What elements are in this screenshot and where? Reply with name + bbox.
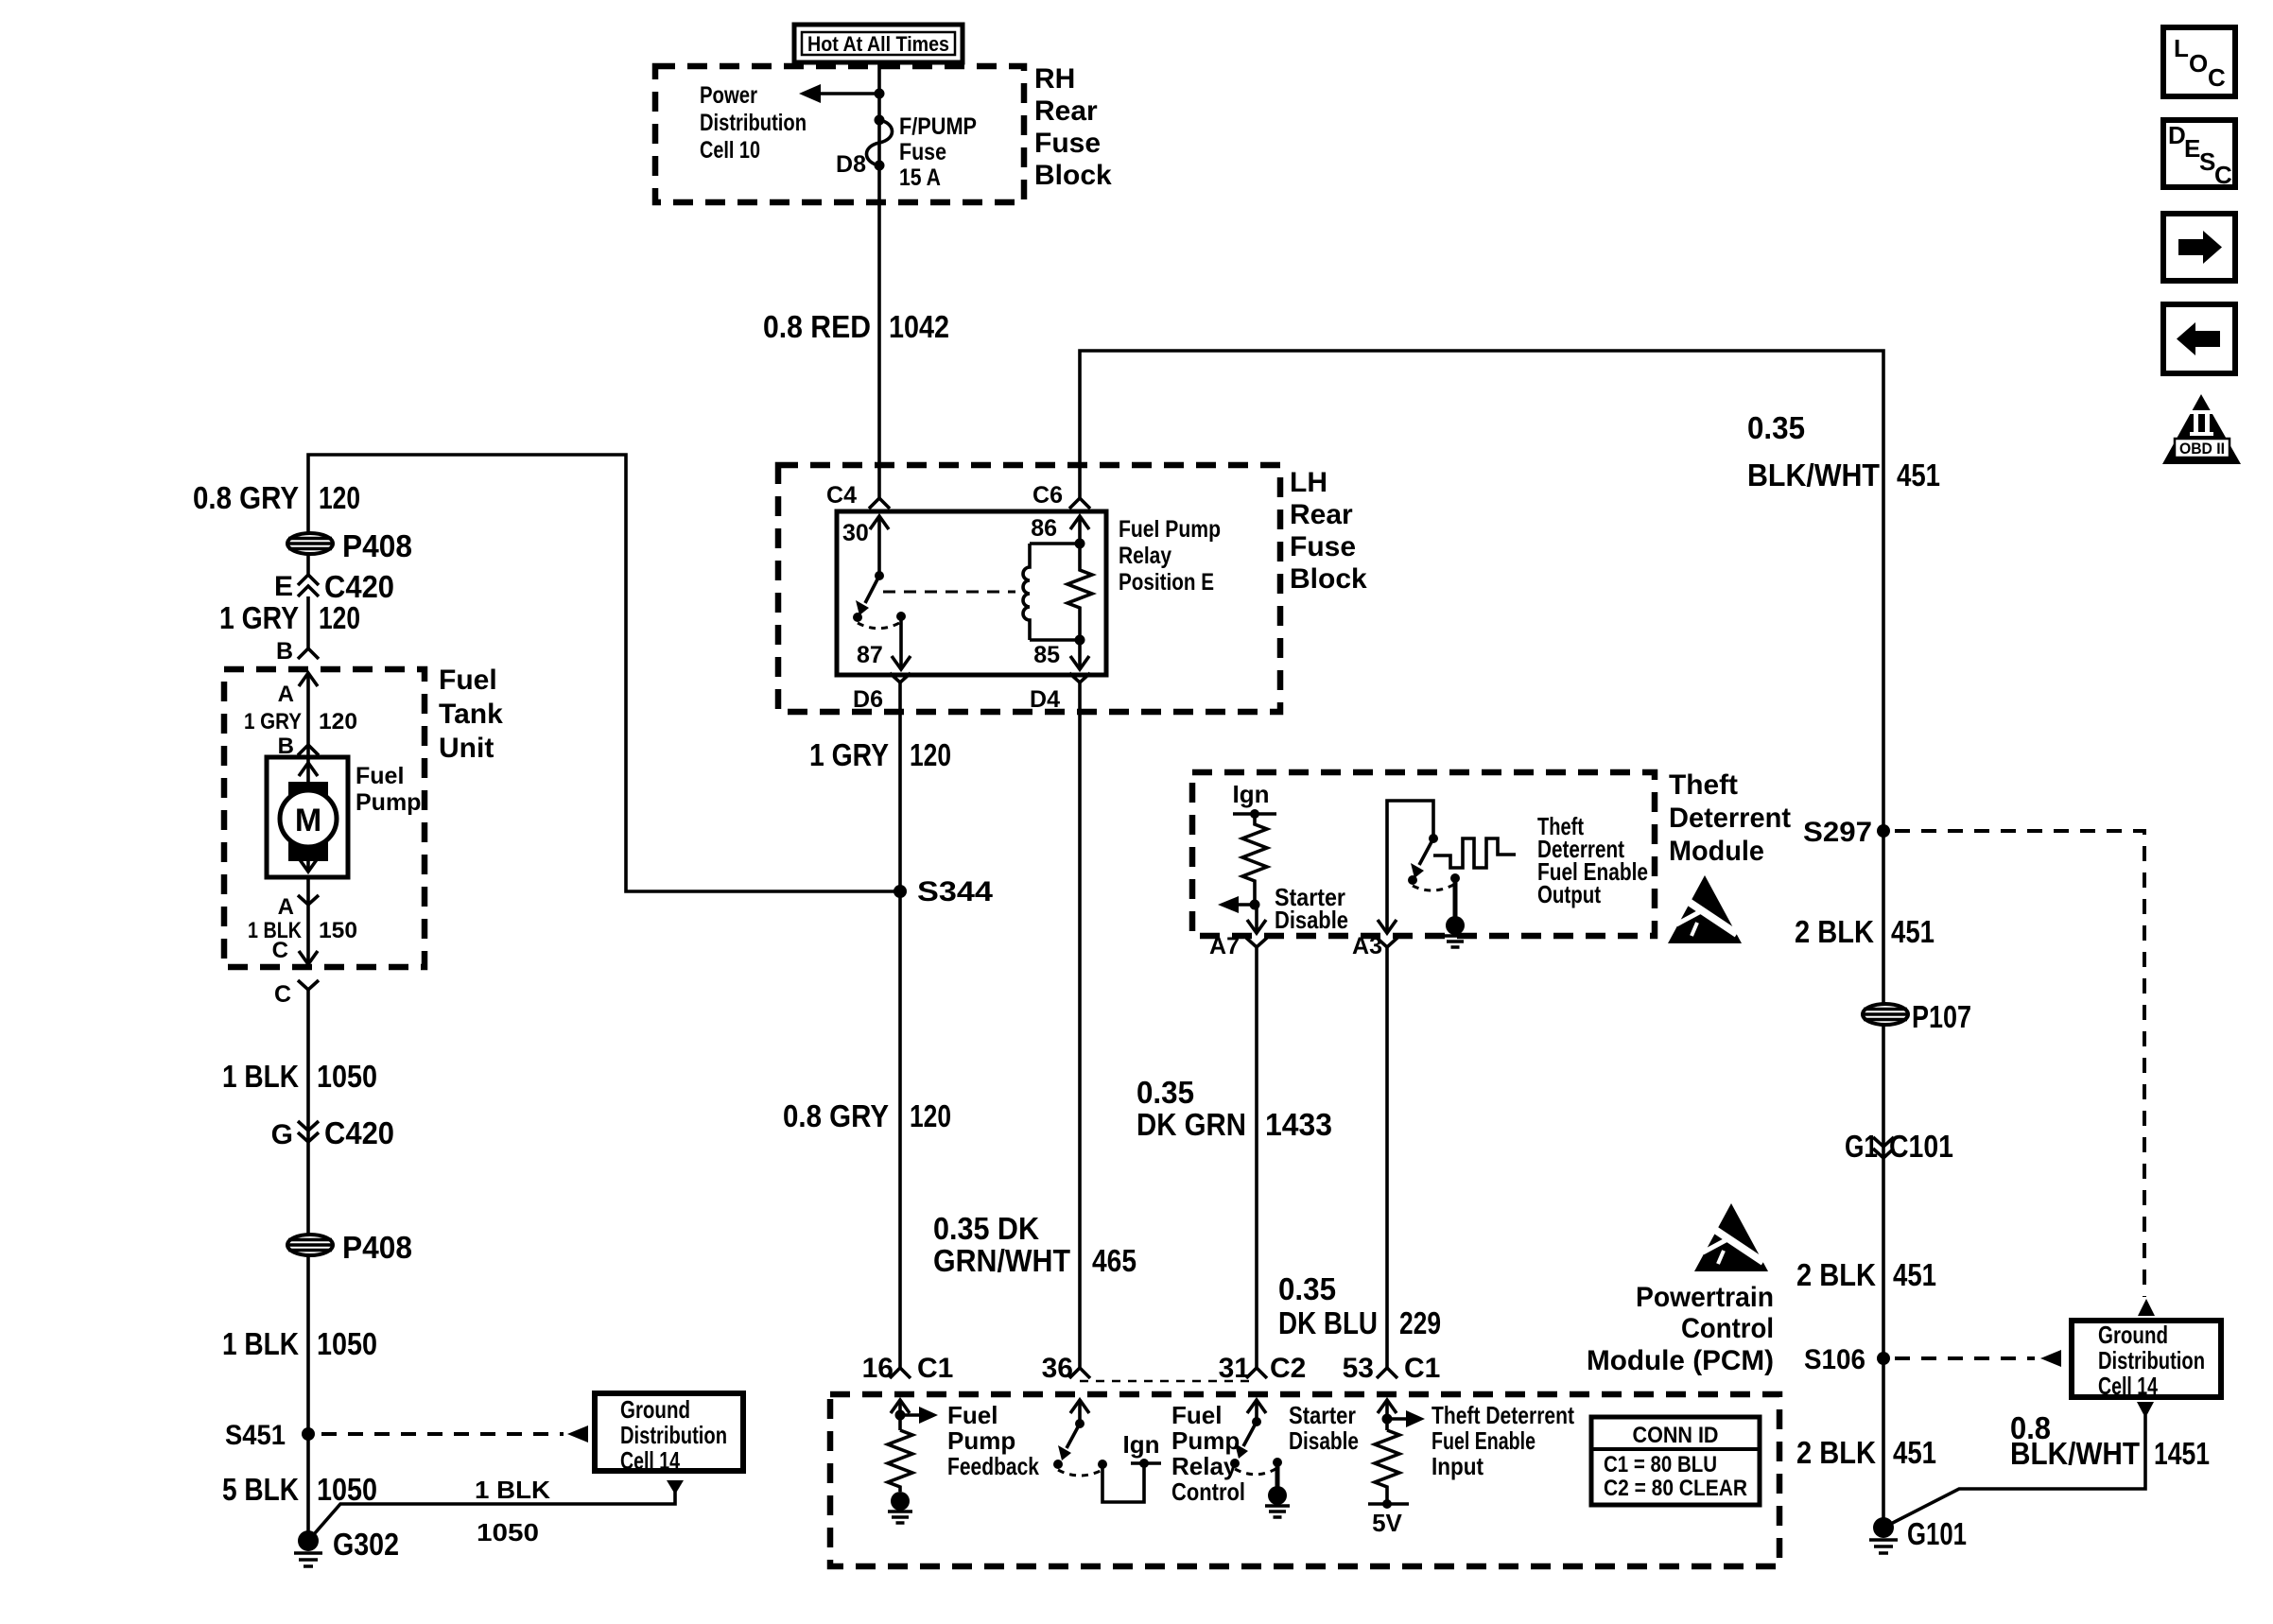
Fuel Tank Unit dashed box <box>224 669 425 967</box>
svg-text:0.8 GRY: 0.8 GRY <box>783 1098 889 1133</box>
connector B (outside tank) <box>276 638 319 665</box>
svg-text:465: 465 <box>1092 1243 1136 1278</box>
svg-text:1 GRY: 1 GRY <box>809 737 889 772</box>
svg-text:Input: Input <box>1431 1452 1484 1480</box>
svg-text:C2 = 80 CLEAR: C2 = 80 CLEAR <box>1604 1476 1747 1501</box>
svg-text:Rear: Rear <box>1290 499 1353 530</box>
svg-text:1050: 1050 <box>317 1326 377 1361</box>
svg-text:Power: Power <box>700 82 757 109</box>
relay coil resistor <box>1067 544 1092 640</box>
svg-text:Cell 14: Cell 14 <box>620 1446 680 1475</box>
svg-text:E: E <box>2184 134 2200 163</box>
svg-text:0.35: 0.35 <box>1136 1075 1194 1110</box>
relay inner box <box>837 511 1106 675</box>
svg-text:D4: D4 <box>1030 686 1060 713</box>
wire C6 to G101 <box>1080 351 1883 1528</box>
svg-text:DK BLU: DK BLU <box>1278 1305 1378 1340</box>
svg-text:Relay: Relay <box>1171 1452 1238 1480</box>
label F/PUMP Fuse 15 A <box>899 113 977 191</box>
wire label 1 BLK 1050 <box>222 1059 377 1094</box>
wire label 1 GRY 120 <box>809 737 951 772</box>
relay pin 85 <box>1033 640 1089 669</box>
splice S297 <box>1803 817 1890 848</box>
svg-text:S344: S344 <box>917 876 993 907</box>
connector A (pump bottom) <box>278 894 319 920</box>
ign supply bar <box>1233 809 1276 819</box>
svg-text:2 BLK: 2 BLK <box>1795 914 1874 949</box>
svg-text:Position E: Position E <box>1119 569 1214 596</box>
PCM pin 31 entry <box>1247 1400 1266 1422</box>
icon LOC <box>2163 27 2235 96</box>
wire ground box to G302 <box>308 1480 684 1541</box>
label Fuel Pump Relay Control <box>1171 1401 1245 1506</box>
svg-text:Cell 10: Cell 10 <box>700 137 760 164</box>
svg-text:Fuel: Fuel <box>356 763 404 789</box>
svg-text:G: G <box>271 1119 293 1150</box>
connector C (outside tank) <box>274 980 319 1008</box>
svg-text:C101: C101 <box>1889 1129 1953 1164</box>
svg-text:1050: 1050 <box>477 1518 539 1546</box>
arrow to power distribution (left) <box>799 84 879 103</box>
LH Rear Fuse Block dashed box <box>778 465 1280 712</box>
svg-text:C6: C6 <box>1032 482 1063 509</box>
wire motor to tank pin C <box>306 877 310 965</box>
svg-text:GRN/WHT: GRN/WHT <box>933 1243 1070 1278</box>
svg-text:Starter: Starter <box>1289 1401 1356 1429</box>
svg-text:Fuse: Fuse <box>1290 531 1356 562</box>
PCM dashed box <box>830 1394 1779 1566</box>
svg-text:15 A: 15 A <box>899 164 941 191</box>
relay pin 86 <box>1031 515 1089 544</box>
splice S451 <box>225 1420 315 1451</box>
svg-text:S: S <box>2199 147 2215 176</box>
5V reference <box>1368 1499 1409 1537</box>
connector B (pump) <box>278 734 319 759</box>
wire segment below P408 <box>306 552 310 576</box>
relay switch <box>853 571 906 629</box>
svg-text:1050: 1050 <box>317 1472 377 1507</box>
theft output switch <box>1408 834 1460 890</box>
svg-text:G101: G101 <box>1907 1516 1967 1551</box>
connector C420 pin E <box>274 569 394 604</box>
wire label 1 BLK 1050 (to box) <box>475 1476 550 1546</box>
svg-text:229: 229 <box>1399 1305 1441 1340</box>
pulse waveform <box>1433 838 1516 868</box>
wire label 1 GRY 120 (left) <box>219 600 360 635</box>
label Power Distribution Cell 10 <box>700 82 807 164</box>
connector pin 36 <box>1042 1353 1090 1384</box>
svg-text:Theft Deterrent: Theft Deterrent <box>1431 1401 1574 1429</box>
svg-text:Fuel Enable: Fuel Enable <box>1431 1426 1536 1455</box>
svg-text:85: 85 <box>1033 642 1060 668</box>
svg-text:Disable: Disable <box>1275 906 1348 934</box>
svg-text:Theft: Theft <box>1669 769 1738 801</box>
svg-text:S297: S297 <box>1803 817 1872 848</box>
svg-text:0.8 GRY: 0.8 GRY <box>193 480 299 515</box>
svg-text:0.35: 0.35 <box>1278 1271 1336 1306</box>
svg-text:O: O <box>2189 49 2208 78</box>
relay pin 30 <box>842 516 889 576</box>
svg-text:S451: S451 <box>225 1420 286 1451</box>
enable input resistor <box>1375 1430 1399 1504</box>
label Theft Deterrent Fuel Enable Output <box>1537 812 1648 908</box>
wire label 2 BLK 451 (2) <box>1796 1257 1936 1292</box>
node dot on feed wire <box>875 89 885 99</box>
svg-text:P408: P408 <box>342 1230 412 1265</box>
svg-text:1433: 1433 <box>1265 1107 1332 1142</box>
wire label 0.35 DK GRN 1433 <box>1136 1075 1332 1142</box>
ground G302 <box>294 1527 399 1566</box>
svg-text:A: A <box>278 894 294 920</box>
connector D6 <box>853 673 911 713</box>
svg-text:1 BLK: 1 BLK <box>222 1059 299 1094</box>
connector A7 <box>1209 933 1267 959</box>
relay pin 87 <box>857 616 911 669</box>
svg-text:Unit: Unit <box>439 733 494 764</box>
svg-text:451: 451 <box>1893 1257 1936 1292</box>
wire label 5 BLK 1050 <box>222 1472 377 1507</box>
svg-text:Cell 14: Cell 14 <box>2098 1372 2158 1400</box>
wire D4 to PCM pin 36 <box>1078 682 1082 1368</box>
wire label 0.35 DK GRN/WHT 465 <box>933 1211 1136 1278</box>
title RH Rear Fuse Block <box>1034 63 1112 191</box>
label Fuel Pump Feedback <box>947 1401 1039 1480</box>
svg-text:LH: LH <box>1290 467 1327 498</box>
tank pin C (bottom) <box>272 938 318 964</box>
PCM pin 36 entry <box>1070 1400 1089 1424</box>
connector D4 <box>1030 673 1090 713</box>
icon arrow left <box>2163 304 2235 373</box>
label Fuel Pump <box>356 763 421 816</box>
wire from Hot At All Times down to relay C4 <box>877 62 881 498</box>
svg-text:OBD II: OBD II <box>2179 440 2225 458</box>
svg-text:C420: C420 <box>324 1115 394 1150</box>
svg-text:A7: A7 <box>1209 933 1240 959</box>
title LH Rear Fuse Block <box>1290 467 1367 595</box>
connector A3 <box>1352 933 1397 959</box>
tank pin A (top) <box>278 673 318 783</box>
svg-text:M: M <box>295 803 321 838</box>
splice P408 (upper) <box>287 528 412 563</box>
dashed reference S297 to ground distribution <box>1895 831 2144 1297</box>
title Theft Deterrent Module <box>1669 769 1791 867</box>
svg-text:Tank: Tank <box>439 699 503 730</box>
connector C420 pin G <box>271 1115 394 1150</box>
wire E to B <box>306 596 310 648</box>
svg-text:150: 150 <box>319 918 357 943</box>
svg-text:G302: G302 <box>333 1527 399 1562</box>
starter disable switch <box>1230 1417 1282 1475</box>
svg-text:1 BLK: 1 BLK <box>222 1326 299 1361</box>
relay control ign feed <box>1102 1430 1161 1502</box>
Theft Deterrent Module dashed box <box>1192 772 1655 936</box>
PCM pin 53 entry <box>1378 1400 1425 1430</box>
svg-text:16: 16 <box>862 1353 894 1384</box>
fuse F/PUMP 15A <box>866 115 892 171</box>
svg-text:0.35: 0.35 <box>1747 410 1805 445</box>
svg-text:Rear: Rear <box>1034 95 1098 127</box>
svg-text:Ign: Ign <box>1233 780 1270 808</box>
svg-text:C1 = 80 BLU: C1 = 80 BLU <box>1604 1452 1717 1477</box>
svg-text:1042: 1042 <box>889 309 949 344</box>
svg-text:Fuse: Fuse <box>899 139 946 165</box>
svg-text:5 BLK: 5 BLK <box>222 1472 299 1507</box>
svg-text:G1: G1 <box>1845 1129 1878 1164</box>
svg-text:D8: D8 <box>836 151 866 178</box>
svg-text:L: L <box>2174 34 2189 62</box>
svg-text:BLK/WHT: BLK/WHT <box>1747 458 1880 492</box>
svg-text:Control: Control <box>1681 1313 1774 1344</box>
svg-text:1050: 1050 <box>317 1059 377 1094</box>
svg-text:Block: Block <box>1290 563 1367 595</box>
svg-text:CONN ID: CONN ID <box>1633 1423 1719 1448</box>
svg-text:86: 86 <box>1031 515 1057 542</box>
svg-text:C2: C2 <box>1270 1353 1306 1384</box>
svg-text:1 GRY: 1 GRY <box>244 709 302 734</box>
wire D6 to PCM pin 16 <box>898 682 902 1368</box>
svg-text:Deterrent: Deterrent <box>1669 803 1791 834</box>
node and arrow starter disable <box>1218 896 1260 913</box>
svg-text:Disable: Disable <box>1289 1426 1359 1455</box>
svg-text:F/PUMP: F/PUMP <box>899 113 977 140</box>
svg-text:D6: D6 <box>853 686 883 713</box>
Ground Distribution Cell 14 box (left) <box>595 1393 743 1475</box>
svg-text:BLK/WHT: BLK/WHT <box>2010 1436 2140 1471</box>
title Powertrain Control Module (PCM) <box>1587 1282 1774 1376</box>
splice S344 <box>894 876 993 907</box>
svg-text:D: D <box>2168 121 2186 149</box>
svg-text:Hot At All Times: Hot At All Times <box>807 32 949 56</box>
wire ground box to G101 <box>1883 1415 2145 1528</box>
svg-text:2 BLK: 2 BLK <box>1796 1435 1876 1470</box>
CONN ID table <box>1591 1417 1760 1505</box>
svg-text:Distribution: Distribution <box>700 110 807 136</box>
RH Rear Fuse Block dashed box <box>655 66 1024 202</box>
svg-text:120: 120 <box>319 480 360 515</box>
feedback resistor <box>888 1430 912 1492</box>
svg-text:Powertrain: Powertrain <box>1636 1282 1774 1313</box>
svg-text:451: 451 <box>1891 914 1935 949</box>
connector C4 <box>826 482 890 509</box>
theft switch feed wire <box>1387 801 1433 932</box>
svg-text:Fuel: Fuel <box>439 665 497 696</box>
wire label 0.8 GRY 120 (left) <box>193 480 360 515</box>
svg-text:120: 120 <box>910 737 951 772</box>
svg-text:E: E <box>274 571 293 602</box>
svg-text:451: 451 <box>1893 1435 1936 1470</box>
svg-text:87: 87 <box>857 642 883 668</box>
svg-text:RH: RH <box>1034 63 1075 95</box>
wire label 1 BLK 1050 (2) <box>222 1326 377 1361</box>
svg-text:120: 120 <box>319 600 360 635</box>
svg-text:451: 451 <box>1897 458 1940 492</box>
svg-text:C1: C1 <box>917 1353 953 1384</box>
label Fuel Pump Relay Position E <box>1119 516 1221 596</box>
svg-text:120: 120 <box>319 709 357 734</box>
svg-text:Feedback: Feedback <box>947 1452 1039 1480</box>
svg-text:1 BLK: 1 BLK <box>475 1476 550 1504</box>
svg-text:Distribution: Distribution <box>620 1421 727 1449</box>
svg-text:Pump: Pump <box>1171 1426 1240 1455</box>
svg-text:A3: A3 <box>1352 933 1382 959</box>
svg-text:Fuel: Fuel <box>947 1401 998 1429</box>
relay coil (inductor) <box>1023 539 1085 646</box>
feedback ground <box>888 1492 912 1523</box>
svg-text:1451: 1451 <box>2154 1436 2210 1471</box>
wire label 0.8 RED 1042 <box>763 309 949 344</box>
svg-text:Relay: Relay <box>1119 543 1171 569</box>
svg-text:C1: C1 <box>1404 1353 1440 1384</box>
svg-text:1 GRY: 1 GRY <box>219 600 299 635</box>
switch ground <box>1443 878 1467 947</box>
splice P107 <box>1863 999 1971 1034</box>
icon DESC <box>2163 120 2235 189</box>
connector pin 53 C1 <box>1343 1353 1441 1384</box>
svg-text:Ign: Ign <box>1123 1430 1160 1459</box>
wire label 2 BLK 451 (1) <box>1795 914 1935 949</box>
svg-text:Fuse: Fuse <box>1034 128 1101 159</box>
svg-text:0.35 DK: 0.35 DK <box>933 1211 1039 1246</box>
svg-text:C: C <box>2208 63 2226 92</box>
module pin A7 exit arrow <box>1247 905 1266 933</box>
svg-text:Ground: Ground <box>620 1395 690 1424</box>
svg-text:Control: Control <box>1171 1477 1245 1506</box>
svg-text:Module: Module <box>1669 836 1764 867</box>
dashed actuation link <box>883 591 1015 594</box>
fuel pump motor M1 <box>267 757 348 877</box>
starter disable ground <box>1265 1462 1290 1517</box>
dashed reference S106 to ground distribution <box>1895 1350 2061 1367</box>
svg-text:Block: Block <box>1034 160 1112 191</box>
wire C to G302 <box>306 990 310 1541</box>
svg-text:Ground: Ground <box>2098 1321 2168 1349</box>
label Theft Deterrent Fuel Enable Input <box>1431 1401 1574 1480</box>
ground G101 <box>1869 1516 1967 1553</box>
module pin A3 exit arrow <box>1378 920 1397 933</box>
resistor (starter disable) <box>1242 814 1267 905</box>
ESD symbol (module) <box>1668 875 1742 943</box>
dashed reference to ground distribution <box>321 1425 588 1443</box>
wire label 0.35 DK BLU 229 <box>1278 1271 1441 1340</box>
title Fuel Tank Unit <box>439 665 503 764</box>
svg-text:30: 30 <box>842 520 869 546</box>
ESD symbol (PCM) <box>1694 1203 1768 1271</box>
svg-text:A: A <box>278 682 294 707</box>
svg-text:Fuel: Fuel <box>1171 1401 1222 1429</box>
relay control switch <box>1053 1419 1107 1476</box>
svg-text:Pump: Pump <box>947 1426 1015 1455</box>
wire label 0.35 BLK/WHT 451 <box>1747 410 1940 492</box>
connector pin 16 C1 <box>862 1353 954 1384</box>
connector pin 31 C2 <box>1219 1353 1307 1384</box>
svg-text:C420: C420 <box>324 569 394 604</box>
wire label 0.8 BLK/WHT 1451 <box>2010 1410 2210 1471</box>
Hot At All Times box <box>794 25 963 62</box>
svg-text:C: C <box>272 938 288 963</box>
svg-text:C: C <box>274 981 291 1008</box>
svg-text:Fuel Pump: Fuel Pump <box>1119 516 1221 543</box>
svg-text:120: 120 <box>910 1098 951 1133</box>
svg-text:C4: C4 <box>826 482 857 509</box>
Ground Distribution Cell 14 box (right) <box>2072 1299 2221 1418</box>
wire label 2 BLK 451 (3) <box>1796 1435 1936 1470</box>
splice S106 <box>1804 1344 1890 1375</box>
label Starter Disable (PCM) <box>1289 1401 1359 1455</box>
dashed connector line 36 to 31 <box>1080 1380 1257 1383</box>
connector C6 <box>1032 482 1090 509</box>
svg-text:P408: P408 <box>342 528 412 563</box>
wire A7 to PCM pin 31 <box>1255 947 1258 1368</box>
svg-text:Distribution: Distribution <box>2098 1346 2205 1374</box>
svg-text:2 BLK: 2 BLK <box>1796 1257 1876 1292</box>
icon arrow right <box>2163 214 2235 281</box>
wire label 1 GRY 120 (in tank) <box>244 709 357 734</box>
connector C101 pin G1 <box>1845 1129 1953 1164</box>
svg-text:Output: Output <box>1537 880 1601 908</box>
svg-text:31: 31 <box>1219 1353 1250 1384</box>
wire A3 to PCM pin 53 <box>1385 947 1389 1368</box>
wire label 1 BLK 150 <box>248 918 357 943</box>
svg-text:S106: S106 <box>1804 1344 1865 1375</box>
icon OBD II triangle <box>2162 394 2241 464</box>
PCM pin 16 entry <box>891 1400 938 1430</box>
svg-text:36: 36 <box>1042 1353 1073 1384</box>
svg-text:P107: P107 <box>1912 999 1971 1034</box>
wire label 0.8 GRY 120 <box>783 1098 951 1133</box>
svg-text:Pump: Pump <box>356 789 421 816</box>
svg-text:53: 53 <box>1343 1353 1374 1384</box>
svg-text:DK GRN: DK GRN <box>1136 1107 1246 1142</box>
wire S344 to fuel tank top <box>308 455 900 891</box>
splice P408 (lower) <box>287 1230 412 1265</box>
label Starter Disable (module) <box>1275 883 1348 934</box>
svg-text:C: C <box>2214 161 2232 189</box>
svg-text:B: B <box>276 638 293 665</box>
svg-text:Module (PCM): Module (PCM) <box>1587 1345 1774 1376</box>
svg-text:5V: 5V <box>1372 1509 1402 1537</box>
svg-text:0.8 RED: 0.8 RED <box>763 309 871 344</box>
